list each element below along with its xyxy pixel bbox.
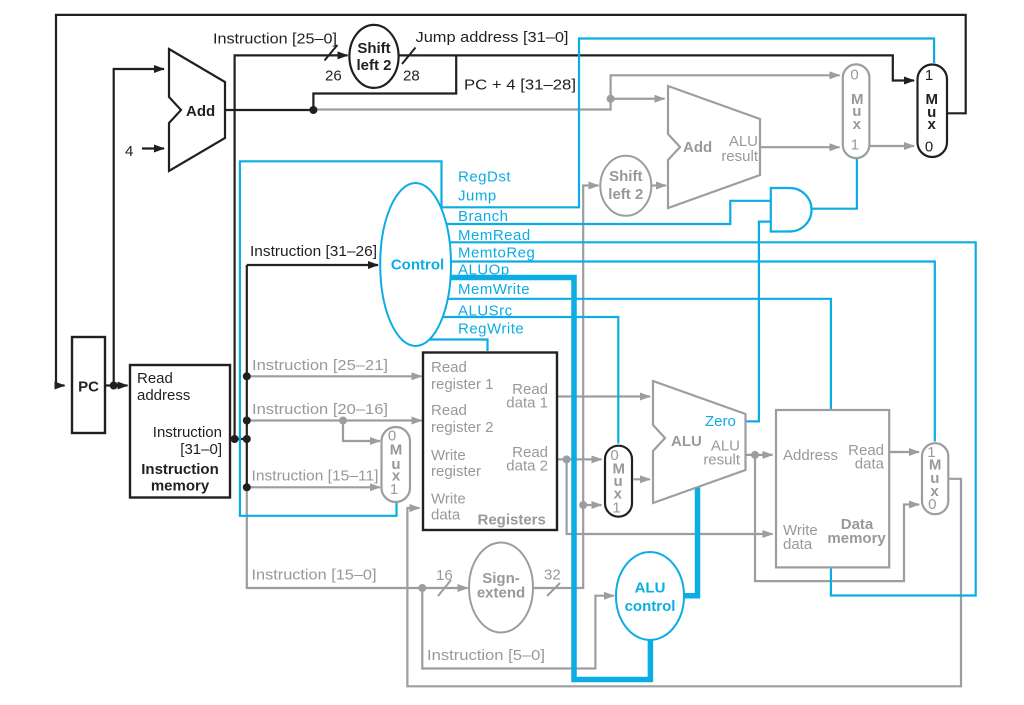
mux jump [918, 65, 948, 158]
svg-text:ALUOp: ALUOp [458, 262, 510, 279]
svg-text:result: result [703, 452, 741, 469]
wire PC output to Instruction memory Read address [105, 384, 128, 386]
adder Add (PC+4) [169, 49, 225, 171]
svg-text:ALU: ALU [671, 433, 702, 450]
wire Instruction[31-26] into Control [247, 264, 378, 266]
bus width slash 28 [402, 48, 416, 65]
wire branch mux output to jump mux input 0 [869, 145, 914, 147]
wire Instruction[25-21] bus to Read register 1 [247, 375, 422, 377]
wire PC+4 [31-28] up to jump address join [313, 55, 456, 110]
svg-text:Registers: Registers [478, 512, 546, 529]
svg-text:Instruction [15–0]: Instruction [15–0] [252, 567, 377, 584]
svg-text:RegWrite: RegWrite [458, 321, 524, 338]
svg-text:Instruction [25–0]: Instruction [25–0] [213, 31, 337, 48]
Control ellipse [380, 183, 451, 346]
wire Sign-extend output up to Shift left 2 [533, 186, 599, 589]
wire Instruction[5-0] to ALU control [422, 588, 614, 669]
svg-text:Instruction [25–21]: Instruction [25–21] [252, 357, 388, 374]
wire PC value up to Add top input [114, 69, 164, 386]
junction dot Instruction[15-0] split to funct field [418, 584, 426, 592]
svg-text:Write: Write [431, 447, 466, 464]
ALU main [653, 381, 746, 503]
svg-text:1: 1 [925, 67, 933, 84]
svg-text:Read: Read [431, 359, 467, 376]
svg-text:PC + 4 [31–28]: PC + 4 [31–28] [464, 77, 576, 94]
wire PC+4 to branch mux input 0 [313, 75, 839, 109]
wire branch Add ALU result to branch mux input 1 [760, 146, 840, 148]
junction dot PC+4 split [309, 106, 317, 114]
svg-text:0: 0 [928, 496, 936, 513]
wire PC+4 branch into branch Add top input [611, 98, 665, 100]
svg-text:RegDst: RegDst [458, 169, 511, 186]
wire ALU control output to ALU (bold) [682, 485, 698, 596]
svg-text:memory: memory [151, 478, 210, 495]
svg-text:x: x [928, 116, 937, 133]
svg-text:Shift: Shift [609, 168, 642, 185]
wire ALU result down to MemtoReg mux input 0 [755, 455, 919, 581]
wire Shift left 2 output to branch Add [651, 184, 666, 186]
wire Read data 2 branch to Data memory Write data [567, 459, 773, 534]
junction dot Instruction[25-0] tap [231, 435, 239, 443]
bus width slash 16 [438, 580, 451, 596]
mux branch (PCSrc) [843, 64, 870, 158]
svg-text:data 2: data 2 [506, 458, 548, 475]
svg-text:ALU: ALU [635, 580, 666, 597]
Shift left 2 (jump) ellipse [349, 25, 398, 88]
svg-text:1: 1 [390, 481, 398, 498]
svg-text:1: 1 [851, 137, 859, 154]
svg-text:Address: Address [783, 447, 838, 464]
svg-text:0: 0 [850, 66, 858, 83]
wire ALU result to Data memory Address [746, 454, 773, 456]
svg-text:result: result [721, 148, 759, 165]
Sign-extend ellipse [469, 543, 533, 633]
svg-text:Instruction [20–16]: Instruction [20–16] [252, 401, 388, 418]
PC register box [72, 337, 105, 433]
svg-text:address: address [137, 387, 190, 404]
svg-text:x: x [853, 116, 862, 133]
wire Read data 1 to ALU top input [557, 395, 650, 397]
svg-text:control: control [625, 598, 676, 615]
svg-text:26: 26 [325, 68, 342, 85]
wire instruction bus out of Instruction memory [230, 438, 247, 440]
svg-text:Instruction [31–26]: Instruction [31–26] [250, 243, 377, 260]
junction dot Instruction[25-21] tap [243, 372, 251, 380]
Registers box [423, 353, 557, 531]
wire constant 4 into Add [142, 147, 164, 149]
svg-text:ALUSrc: ALUSrc [458, 303, 513, 320]
mux ALUSrc [605, 446, 632, 517]
wire Instruction[20-16] bus to Read register 2 [247, 419, 422, 421]
wire Zero flag to AND gate bottom input [746, 222, 772, 422]
svg-text:MemRead: MemRead [458, 227, 531, 244]
junction dot PC output [110, 382, 118, 390]
ALU control ellipse [616, 552, 684, 640]
junction dot Instruction[20-16] tap [243, 417, 251, 425]
svg-text:left 2: left 2 [356, 57, 391, 74]
svg-text:extend: extend [477, 585, 525, 602]
svg-text:28: 28 [403, 68, 420, 85]
mux MemtoReg [922, 443, 948, 514]
wire RegDst control to RegDst mux select [240, 161, 442, 516]
svg-text:Read: Read [431, 402, 467, 419]
svg-text:1: 1 [612, 499, 620, 516]
Data memory box [776, 410, 889, 567]
svg-text:32: 32 [544, 567, 561, 584]
svg-text:register 1: register 1 [431, 376, 494, 393]
wire jump mux output loop to PC input [56, 15, 966, 386]
junction dot Instruction[20-16] split [339, 417, 347, 425]
svg-text:register: register [431, 463, 481, 480]
svg-text:4: 4 [125, 143, 133, 160]
svg-text:Write: Write [431, 491, 466, 508]
wire ALUSrc control to ALUSrc mux select [441, 317, 618, 444]
Instruction memory box [130, 365, 230, 498]
AND gate [771, 188, 812, 232]
wire Add output PC+4 [225, 109, 313, 111]
svg-text:16: 16 [436, 567, 453, 584]
svg-text:register 2: register 2 [431, 419, 494, 436]
junction dot Read data 2 split [563, 455, 571, 463]
wire Instruction[15-11] to RegDst mux input 1 [247, 486, 380, 488]
svg-text:Zero: Zero [705, 413, 736, 430]
wire Jump address[31-0] to jump mux input 1 [399, 55, 914, 80]
wire Instruction[15-0] to Sign-extend [247, 487, 468, 588]
svg-text:Instruction: Instruction [141, 461, 219, 478]
wire RegWrite control to Registers [428, 340, 488, 352]
bus width slash 26 [325, 45, 338, 61]
svg-text:MemWrite: MemWrite [458, 281, 530, 298]
wire Data memory Read data to MemtoReg mux input 1 [889, 451, 919, 453]
svg-text:memory: memory [827, 530, 886, 547]
svg-text:0: 0 [925, 138, 933, 155]
bus width slash 32 [547, 583, 560, 596]
adder Add (branch target) [668, 86, 760, 208]
svg-text:Branch: Branch [458, 208, 509, 225]
wire ALUSrc mux output to ALU bottom input [634, 478, 651, 480]
mux RegDst (write register mux) [382, 427, 411, 502]
wire sign-extend branch to ALUSrc mux input 1 [583, 504, 601, 506]
svg-text:data: data [431, 507, 461, 524]
svg-text:Jump: Jump [458, 188, 497, 205]
junction dot ALU result split [751, 451, 759, 459]
svg-text:data: data [783, 536, 813, 553]
svg-text:MemtoReg: MemtoReg [458, 245, 535, 262]
junction dot Instruction[15-11] tap [243, 483, 251, 491]
wire Instruction[20-16] branch to RegDst mux input 0 [343, 421, 380, 442]
svg-text:Instruction [5–0]: Instruction [5–0] [427, 647, 545, 664]
Shift left 2 (branch) ellipse [600, 156, 651, 216]
junction dot sign-extend branch to ALUSrc mux [579, 501, 587, 509]
junction dot instruction bus [243, 435, 251, 443]
wire Branch control to AND gate top input [445, 201, 771, 224]
wire Jump control to jump mux select [437, 39, 934, 208]
svg-text:Read: Read [137, 370, 173, 387]
svg-text:Instruction [15–11]: Instruction [15–11] [252, 468, 379, 485]
svg-text:Control: Control [391, 257, 444, 274]
wire Read data 2 to ALUSrc mux input 0 [557, 458, 602, 460]
svg-text:Shift: Shift [357, 40, 390, 57]
svg-text:[31–0]: [31–0] [180, 441, 222, 458]
wire MemtoReg control to MemtoReg mux select [450, 262, 935, 442]
wire MemRead control to Data memory bottom [448, 242, 976, 595]
wire instruction bus vertical distribution [246, 265, 248, 488]
wire MemtoReg mux output loop back to Registers Write data [407, 479, 961, 687]
svg-text:left 2: left 2 [608, 186, 643, 203]
wire AND gate output to branch mux select [812, 157, 857, 209]
junction dot PC+4 split to branch adder [607, 95, 615, 103]
wire MemWrite control to Data memory top [447, 299, 831, 409]
svg-text:Add: Add [683, 139, 712, 156]
svg-text:data: data [855, 456, 885, 473]
wire Instruction[25-0] up to Shift left 2 [235, 55, 348, 439]
svg-text:PC: PC [78, 379, 99, 396]
svg-text:Add: Add [186, 103, 215, 120]
wire ALUOp control to ALU control (bold) [449, 278, 650, 680]
svg-text:Instruction: Instruction [153, 424, 222, 441]
svg-text:data 1: data 1 [506, 395, 548, 412]
svg-text:Jump address [31–0]: Jump address [31–0] [416, 29, 569, 46]
